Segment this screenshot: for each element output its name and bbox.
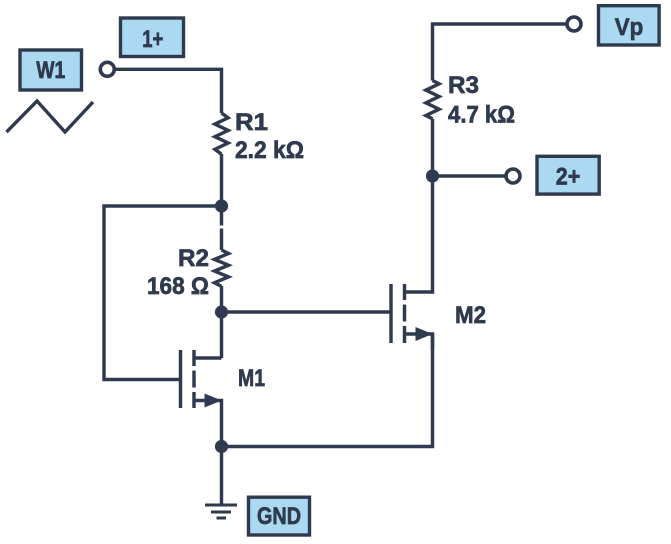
wire: node A down to R2 (with small break) (220, 206, 223, 250)
wire: bottom rail node C to M2 source (222, 333, 433, 447)
wire: R1 bottom to node A (220, 154, 223, 206)
node C junction dot (215, 440, 228, 453)
wire: R2 bottom to node B (220, 286, 223, 312)
label box W1 (20, 50, 82, 90)
wire: Vp terminal to R3 top (433, 24, 567, 81)
svg-text:R2: R2 (178, 245, 209, 272)
svg-text:M2: M2 (455, 302, 486, 329)
label box 1+ (121, 18, 184, 57)
label box GND (249, 497, 310, 535)
svg-text:R3: R3 (448, 72, 479, 99)
wire: node B to M2 gate (222, 310, 390, 313)
wire: node C down to ground (220, 447, 223, 505)
svg-text:GND: GND (257, 503, 301, 530)
resistor R2 (215, 250, 229, 286)
source arrow M1 (205, 394, 222, 408)
label box 2+ (537, 156, 599, 194)
svg-text:1+: 1+ (142, 26, 163, 53)
transistor M2 (389, 284, 392, 343)
svg-text:Vp: Vp (615, 14, 644, 41)
svg-text:W1: W1 (36, 57, 65, 84)
resistor R1 (215, 113, 228, 154)
transistor M1 (179, 350, 182, 408)
svg-text:M1: M1 (238, 365, 265, 392)
svg-text:2+: 2+ (556, 164, 581, 191)
wire: node D right to 2+ terminal (433, 174, 506, 177)
source arrow M2 (416, 327, 433, 341)
svg-text:4.7 kΩ: 4.7 kΩ (448, 102, 515, 129)
terminal circle Vp (567, 17, 581, 31)
wire: node A left to M1 gate (104, 206, 222, 380)
label box Vp (599, 6, 660, 45)
svg-text:2.2 kΩ: 2.2 kΩ (235, 137, 304, 164)
terminal circle 2+ (506, 169, 520, 183)
ground (205, 505, 237, 518)
W1 waveform icon (7, 101, 94, 132)
wire: W1 terminal to R1 top (115, 69, 222, 113)
resistor R3 (426, 81, 439, 177)
wire: node B down to M1 drain (220, 312, 223, 358)
node D junction dot (426, 169, 439, 182)
node B junction dot (215, 305, 228, 318)
svg-text:R1: R1 (235, 109, 268, 136)
terminal circle W1/1+ (100, 62, 114, 76)
node A junction dot (215, 199, 228, 212)
svg-text:168 Ω: 168 Ω (147, 273, 209, 300)
